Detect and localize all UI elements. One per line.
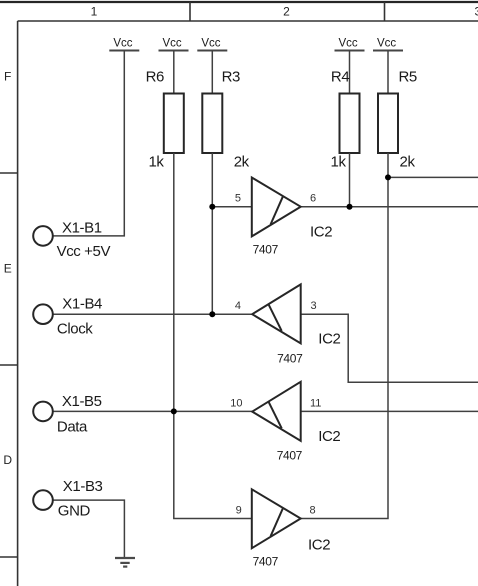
svg-text:D: D [3,453,12,467]
junction Data / R6 net [171,408,177,414]
frame left border line [17,21,19,586]
svg-text:Vcc: Vcc [201,37,220,49]
wire gate A input (pin 5) from R3 net [212,206,252,208]
svg-text:2k: 2k [234,154,250,171]
svg-text:Vcc: Vcc [113,37,132,49]
svg-text:7407: 7407 [277,352,303,366]
svg-text:R4: R4 [331,68,349,85]
svg-text:X1-B1: X1-B1 [62,219,102,236]
wire gate A output (pin 6) to right edge [301,206,478,208]
connector pin X1-B4 body [33,304,53,324]
junction R5 net branch [385,174,391,180]
power symbol Vcc (X1-B1 net) [109,50,139,52]
connector pin X1-B1 body [33,226,53,246]
svg-text:Vcc +5V: Vcc +5V [57,243,111,260]
svg-text:6: 6 [310,193,316,205]
wire R3 bottom down to Clock node [211,153,213,314]
wire Vcc stem down and left to X1-B1 [53,51,125,236]
junction gate A input / R3 net [209,204,215,210]
wire gate B output (pin 3) down and right to edge [301,314,478,382]
frame column tick between 2 and 3 [384,2,386,21]
power symbol Vcc (R5) [373,50,403,52]
svg-text:2k: 2k [400,154,416,171]
wire R5 net branch to right edge [388,176,478,178]
wire gate C output (pin 11) to right edge [301,410,478,412]
svg-text:X1-B5: X1-B5 [62,393,102,410]
svg-text:R5: R5 [399,68,417,85]
wire X1-B4 Clock to gate B input (pin 4) [53,313,252,315]
svg-text:1: 1 [91,5,98,19]
svg-text:X1-B3: X1-B3 [63,478,103,495]
svg-text:X1-B4: X1-B4 [62,296,102,313]
svg-text:9: 9 [236,505,242,517]
power symbol Vcc (R3) [197,50,227,52]
svg-text:F: F [4,70,11,84]
svg-text:Vcc: Vcc [377,37,396,49]
svg-text:R6: R6 [146,68,164,85]
buffer U IC2 gate C body mirrored (7407, pins 10-11) [252,382,301,441]
wire X1-B3 GND down to ground [53,500,125,558]
svg-text:IC2: IC2 [318,428,340,445]
svg-text:3: 3 [311,300,317,312]
junction gate A output / R4 net [347,204,353,210]
svg-text:IC2: IC2 [308,537,330,554]
power symbol Vcc (R4) [335,50,365,52]
wire X1-B5 Data to gate C input (pin 10) [53,410,252,412]
wire Vcc to R5 top [387,51,389,94]
frame column tick between 1 and 2 [189,2,191,21]
wire R4 bottom to gate A output net [349,153,351,207]
svg-text:7407: 7407 [253,243,279,257]
frame outer top border line [0,1,478,3]
wire Vcc to R6 top [173,51,175,94]
buffer U IC2 gate B body mirrored (7407, pins 4-3) [252,284,301,343]
svg-text:Data: Data [57,418,88,435]
resistor R4 body [340,94,360,154]
ground symbol [115,558,135,567]
svg-text:7407: 7407 [277,448,303,462]
wire Vcc to R4 top [349,51,351,94]
svg-text:1k: 1k [148,154,164,171]
svg-text:Vcc: Vcc [339,37,358,49]
junction Clock / R3 net [209,311,215,317]
svg-text:7407: 7407 [253,554,279,568]
svg-text:GND: GND [58,502,91,519]
buffer U IC2 gate A body (7407 open-collector, pins 5-6) [252,178,301,237]
resistor R6 body [164,94,184,154]
svg-text:R3: R3 [222,68,240,85]
wire R5 bottom down to gate D output (pin 8) [301,153,389,519]
svg-text:8: 8 [310,505,316,517]
svg-text:11: 11 [310,397,321,409]
svg-text:2: 2 [283,5,290,19]
svg-text:1k: 1k [331,154,347,171]
svg-text:Vcc: Vcc [163,37,182,49]
svg-text:Clock: Clock [57,321,93,338]
svg-text:5: 5 [235,193,241,205]
frame row tick between E and D [0,364,18,366]
frame row tick between F and E [0,172,18,174]
wire R6 bottom down to gate D input (pin 9) [174,153,252,519]
connector pin X1-B5 body [33,402,53,422]
power symbol Vcc (R6) [159,50,189,52]
frame row tick below D [0,556,18,558]
svg-text:E: E [4,262,12,276]
buffer U IC2 gate D body (7407, pins 9-8) [252,489,301,548]
svg-text:10: 10 [230,397,242,409]
svg-text:3: 3 [474,5,478,19]
svg-text:4: 4 [235,300,241,312]
svg-text:IC2: IC2 [318,330,340,347]
wire Vcc to R3 top [211,51,213,94]
resistor R5 body [378,94,398,154]
connector pin X1-B3 body [33,490,53,510]
svg-text:IC2: IC2 [310,224,332,241]
frame inner top border line [18,20,478,22]
resistor R3 body [202,94,222,154]
